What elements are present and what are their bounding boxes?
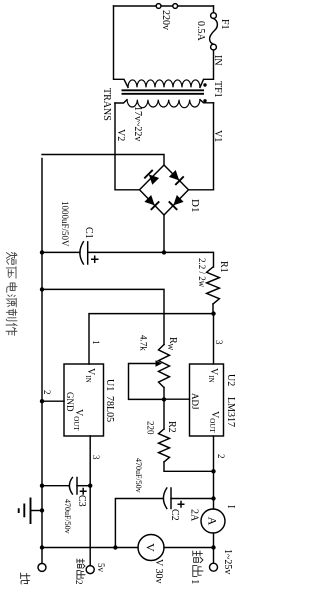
junction U1 GND/rail <box>40 399 44 403</box>
junction ammeter/voltmeter/out1 <box>211 545 215 549</box>
wire: R2 up to VOUT node <box>164 462 214 471</box>
wire: voltmeter vertical <box>42 547 214 549</box>
wire: primary bottom lead <box>114 6 129 87</box>
svg-text:4.7k: 4.7k <box>139 335 149 351</box>
svg-text:V1: V1 <box>212 130 223 142</box>
transformer TF1 primary winding <box>128 80 200 87</box>
svg-text:2A: 2A <box>189 509 200 522</box>
wire: C2 branch top <box>171 498 214 500</box>
svg-text:1: 1 <box>189 579 201 585</box>
diode on L-T edge (points T) <box>168 169 184 185</box>
diode bridge D1 frame <box>140 165 189 215</box>
svg-text:I: I <box>225 505 236 508</box>
label ground (Chinese) <box>21 573 30 584</box>
wire: U1 VOUT to out2 <box>89 436 91 566</box>
polarity dot primary <box>203 83 206 86</box>
svg-text:V2: V2 <box>115 129 126 141</box>
wire: fuse to transformer <box>200 50 214 87</box>
wire: secondary top lead to V1 <box>200 100 214 103</box>
capacitor C3 <box>69 478 77 495</box>
terminal ground <box>38 563 46 571</box>
svg-text:TF1: TF1 <box>212 81 223 98</box>
wire: U2 ADJ pin <box>164 398 190 400</box>
svg-text:1000uF/50V: 1000uF/50V <box>60 201 70 247</box>
regulator U2 LM317 <box>190 364 224 436</box>
capacitor C2 <box>163 488 171 509</box>
svg-text:C3: C3 <box>76 495 87 507</box>
svg-text:V 30v: V 30v <box>153 559 164 584</box>
regulator U1 78L05 <box>64 364 104 436</box>
wire: R1 to pin3 node <box>212 304 214 314</box>
junction U1-VOUT/C3+ <box>88 484 92 488</box>
ammeter A <box>201 509 225 533</box>
wire: pin3 node down and to U1 pin1 <box>89 314 214 364</box>
wire: C3 branch <box>77 485 90 487</box>
svg-text:R1: R1 <box>218 261 229 273</box>
svg-text:F1: F1 <box>219 19 230 30</box>
wire: AC input left vertical <box>114 5 214 7</box>
terminal 220v upper circle <box>173 4 178 9</box>
svg-text:TRANS: TRANS <box>101 88 112 121</box>
svg-text:5v: 5v <box>96 563 106 573</box>
transformer core <box>122 90 205 94</box>
diode on T-R edge (points R) <box>169 194 185 210</box>
ground symbol <box>31 510 43 512</box>
svg-text:2: 2 <box>74 580 84 585</box>
svg-text:0.5A: 0.5A <box>195 21 206 42</box>
junction C1-/rail <box>40 250 44 254</box>
wire: bridge left corner to bottom rail <box>42 155 164 166</box>
junction Rw-leg/rail <box>40 287 44 291</box>
label out2 (Chinese) <box>77 559 85 568</box>
svg-text:17v~22v: 17v~22v <box>132 106 143 141</box>
wire: U2 VOUT pin2 <box>213 436 215 509</box>
svg-text:D1: D1 <box>189 199 201 212</box>
junction Rw-wiper/ADJ/R2 <box>162 397 166 401</box>
terminal 220v lower circle <box>156 4 161 9</box>
svg-text:220v: 220v <box>160 10 171 30</box>
junction C3-/rail <box>40 484 44 488</box>
wire: top-left horizontal to fuse <box>213 6 215 13</box>
svg-text:U1: U1 <box>104 379 115 391</box>
svg-text:C2: C2 <box>169 509 180 521</box>
resistor R2 <box>159 429 170 462</box>
wire: C1 node up to R1 <box>164 252 214 267</box>
fuse F1 <box>211 13 217 19</box>
svg-text:2: 2 <box>42 390 52 395</box>
svg-text:1: 1 <box>91 340 101 345</box>
voltmeter V <box>138 535 164 561</box>
wire: V1 top wire to bridge <box>189 103 214 190</box>
svg-text:IN: IN <box>212 55 223 66</box>
wire: C1 branch upper <box>88 251 164 253</box>
svg-text:C1: C1 <box>83 227 94 239</box>
svg-text:3: 3 <box>91 455 101 460</box>
junction ground-symbol/rail <box>40 508 44 512</box>
wiper arrow Rw <box>156 360 163 366</box>
plus sign C3 <box>80 488 87 495</box>
junction U2-pin2/R2 <box>211 469 215 473</box>
resistor R1 <box>207 267 220 304</box>
svg-text:A: A <box>206 517 220 526</box>
terminal out2 <box>86 566 94 574</box>
wire: Rw to R2 <box>163 388 165 430</box>
wire: wiper return loop <box>129 364 165 400</box>
junction R1/U2-pin3/U1-pin1 <box>211 311 215 315</box>
potentiometer Rw <box>159 345 170 388</box>
label out1 (Chinese) <box>193 551 203 563</box>
title (Chinese) <box>6 252 17 264</box>
svg-text:470uF/50v: 470uF/50v <box>134 458 143 493</box>
wire: U1 GND pin <box>42 400 64 402</box>
svg-text:2.2 / 2w: 2.2 / 2w <box>197 258 207 288</box>
wire: V2 wire to bridge <box>115 103 140 190</box>
polarity dot secondary <box>203 99 206 102</box>
wire: bottom rail <box>41 159 43 564</box>
svg-text:R2: R2 <box>166 421 177 433</box>
junction C2+/ammeter <box>211 496 215 500</box>
junction bridge+/C1+/R1 <box>162 250 166 254</box>
svg-text:1~25v: 1~25v <box>222 549 233 574</box>
wire: secondary bottom lead <box>115 100 127 103</box>
wire: ammeter to out1 <box>213 533 215 563</box>
junction C2-/voltmeter wire <box>113 545 117 549</box>
svg-text:470uF/50v: 470uF/50v <box>63 499 72 534</box>
plus sign C2 <box>178 501 185 508</box>
svg-text:78L05: 78L05 <box>104 396 115 422</box>
terminal out1 <box>210 563 218 571</box>
junction voltmeter/rail <box>40 545 44 549</box>
wire: pin3 node to U2 <box>213 314 215 364</box>
wire: Rw left leg from bottom rail <box>42 289 164 344</box>
svg-text:LM317: LM317 <box>225 397 236 427</box>
svg-text:V: V <box>144 543 158 552</box>
svg-text:U2: U2 <box>225 374 236 386</box>
svg-text:220: 220 <box>146 421 156 435</box>
svg-text:2: 2 <box>216 454 226 459</box>
capacitor C1 <box>80 242 88 264</box>
wire: bridge right corner to C1 node <box>163 215 165 252</box>
svg-text:ADJ: ADJ <box>190 393 200 410</box>
diode on B-R edge (points R) <box>144 194 160 210</box>
diode on L-B edge (points B) <box>144 170 160 186</box>
transformer TF1 secondary winding <box>127 100 200 108</box>
plus sign C1 <box>91 256 99 264</box>
svg-text:3: 3 <box>214 340 224 345</box>
